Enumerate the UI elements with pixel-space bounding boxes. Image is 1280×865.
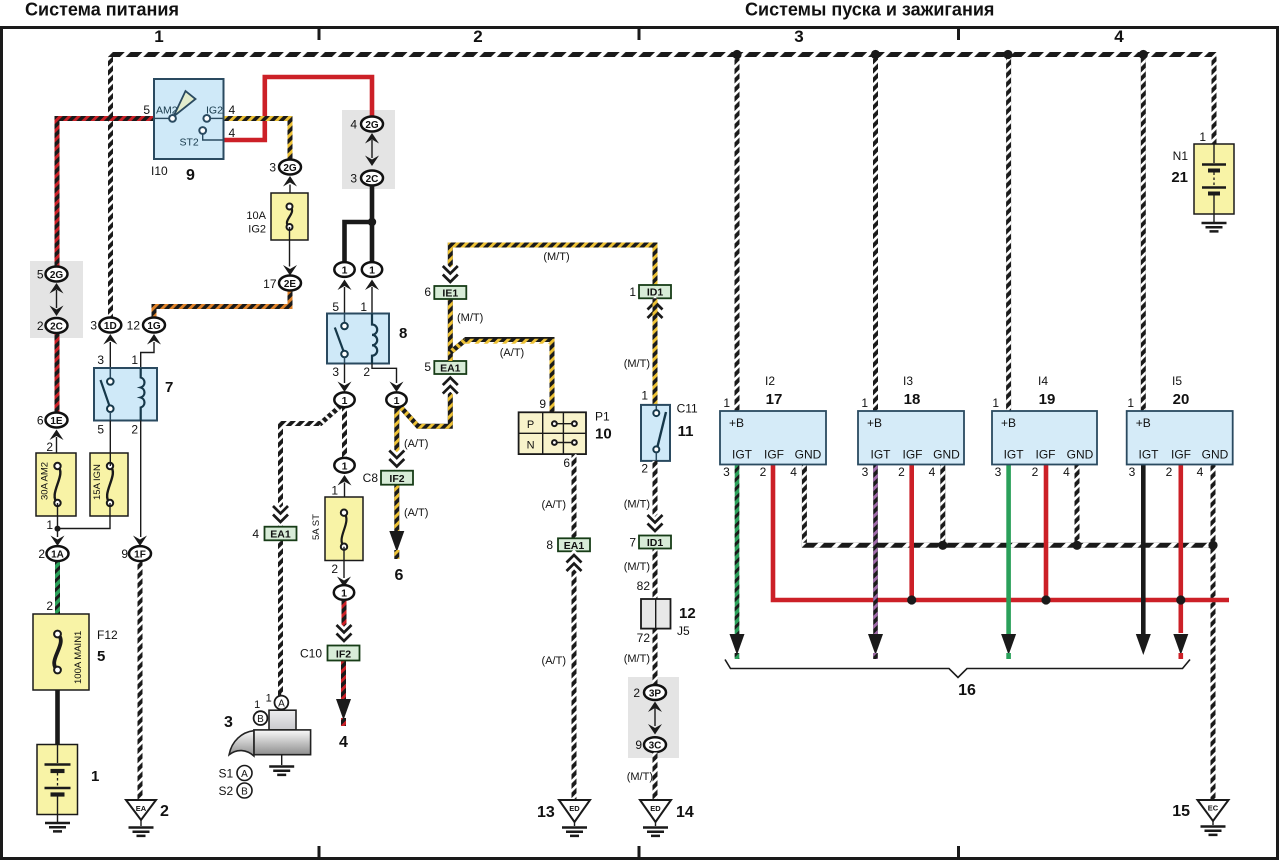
svg-text:6: 6: [563, 456, 570, 470]
connector 1 (relay8 pin1): [362, 262, 382, 277]
svg-text:I3: I3: [903, 374, 913, 388]
svg-text:I5: I5: [1172, 374, 1182, 388]
wire: main +B striped bus from frame top-left to N1: [111, 55, 1215, 318]
svg-text:IGT: IGT: [871, 448, 892, 462]
svg-text:2G: 2G: [283, 163, 297, 174]
wire: orange/black 2E to 1G: [154, 291, 290, 318]
wire yellow/black A/T from relay8 pin2 connector to EA1 5 and P1: [397, 392, 450, 426]
wire: yellow/black IG2 pin4 to connector 2G: [224, 119, 291, 160]
svg-text:EA: EA: [136, 804, 147, 813]
svg-text:ED: ED: [569, 804, 580, 813]
battery ground: [45, 823, 70, 831]
svg-text:1: 1: [723, 396, 730, 410]
brace 16: [725, 660, 1190, 678]
grid tick bottom: [319, 846, 959, 857]
fuse 30A AM2: [36, 453, 76, 516]
wire 1G to relay7 pin1: [141, 342, 154, 368]
svg-text:(M/T): (M/T): [543, 251, 569, 263]
wire pin to fuse IG2: [289, 185, 291, 207]
wire violet/black I3 IGT: [873, 465, 878, 635]
svg-text:3: 3: [995, 465, 1002, 479]
ignition key wedge: [174, 91, 196, 117]
svg-text:2: 2: [898, 465, 905, 479]
svg-text:9: 9: [635, 738, 642, 752]
svg-text:2C: 2C: [366, 174, 379, 185]
svg-text:1: 1: [1127, 396, 1134, 410]
svg-text:P1: P1: [595, 410, 610, 424]
svg-text:GND: GND: [1202, 448, 1229, 462]
svg-text:19: 19: [1039, 391, 1056, 408]
wire 1E to fuse 30A AM2: [56, 437, 58, 466]
svg-text:3: 3: [97, 353, 104, 367]
contact IG2: [210, 117, 224, 119]
svg-text:1: 1: [641, 389, 648, 403]
junction dot GND I3: [938, 541, 947, 550]
svg-text:2: 2: [37, 319, 44, 333]
svg-text:10: 10: [595, 426, 612, 443]
wires connectors to relay8: [345, 287, 373, 314]
wire white/black +B drop I2: [735, 55, 740, 412]
svg-text:P: P: [527, 419, 534, 431]
wire white/black +B drop I5: [1141, 55, 1146, 412]
wire 1D to relay7 pin3: [109, 342, 111, 368]
svg-text:(A/T): (A/T): [500, 347, 524, 359]
svg-text:1F: 1F: [134, 550, 146, 561]
svg-text:(M/T): (M/T): [624, 653, 650, 665]
connector 1 (relay8 pin2 lower): [386, 392, 406, 407]
svg-text:+B: +B: [729, 416, 744, 430]
wire red I3 IGF drop: [909, 465, 914, 601]
svg-text:4: 4: [1197, 465, 1204, 479]
svg-text:(M/T): (M/T): [624, 358, 650, 370]
svg-text:5: 5: [97, 648, 105, 665]
svg-text:2E: 2E: [284, 279, 297, 290]
svg-text:(M/T): (M/T): [624, 499, 650, 511]
fuse 15A IGN: [90, 453, 128, 516]
svg-text:1: 1: [46, 518, 53, 532]
svg-text:I2: I2: [765, 374, 775, 388]
junction dot 2C branch: [368, 218, 376, 226]
svg-text:A: A: [241, 769, 248, 780]
svg-text:7: 7: [165, 379, 173, 396]
contact AM2: [169, 115, 176, 122]
svg-text:1: 1: [342, 395, 348, 407]
svg-text:3: 3: [794, 27, 803, 46]
svg-text:2: 2: [131, 423, 138, 437]
battery block 1: [37, 745, 78, 815]
svg-text:2: 2: [363, 365, 370, 379]
svg-text:6: 6: [424, 285, 431, 299]
svg-text:2: 2: [633, 686, 640, 700]
wire green/black I2 IGT: [735, 465, 740, 635]
svg-text:2: 2: [760, 465, 767, 479]
junction dot IGF I3: [907, 595, 916, 604]
svg-text:1: 1: [369, 265, 375, 277]
svg-text:I10: I10: [151, 164, 168, 178]
junction dot bus I4: [1003, 50, 1012, 59]
wire white/black I4 GND drop: [1075, 465, 1080, 546]
mating arrows 2G-2C: [50, 283, 64, 294]
wire red IGF bus: [773, 465, 1229, 601]
svg-text:2C: 2C: [50, 322, 63, 333]
svg-text:9: 9: [121, 547, 128, 561]
junction dot IGF I4: [1041, 595, 1050, 604]
wire: white/black 1F to ground EA: [138, 561, 143, 800]
svg-text:2: 2: [331, 562, 338, 576]
svg-text:1: 1: [342, 460, 348, 472]
svg-text:3: 3: [332, 365, 339, 379]
svg-text:4: 4: [339, 734, 348, 751]
wire yellow/black M/T riser EA1 to ID1: [450, 245, 655, 361]
ground ED 13: [559, 800, 590, 822]
svg-text:8: 8: [399, 325, 407, 342]
svg-text:S2: S2: [219, 784, 234, 798]
svg-text:9: 9: [186, 167, 195, 184]
svg-text:Система питания: Система питания: [25, 0, 179, 20]
svg-text:IE1: IE1: [442, 288, 458, 300]
svg-text:1: 1: [629, 285, 636, 299]
starter motor 3: [280, 693, 282, 696]
svg-text:IGT: IGT: [732, 448, 753, 462]
svg-text:(M/T): (M/T): [457, 312, 483, 324]
ignition switch I10 block 9: [154, 79, 224, 159]
connector 1 above 5A ST: [334, 458, 354, 473]
svg-text:16: 16: [958, 682, 976, 699]
wire relay8 pin3 to connector: [344, 364, 346, 384]
svg-text:18: 18: [904, 391, 921, 408]
svg-text:IF2: IF2: [336, 649, 351, 661]
svg-text:EC: EC: [1208, 804, 1219, 813]
relay block 8: [327, 314, 389, 364]
svg-text:2G: 2G: [365, 120, 379, 131]
svg-text:17: 17: [766, 391, 783, 408]
svg-text:15: 15: [1172, 803, 1190, 820]
svg-text:IGF: IGF: [903, 448, 923, 462]
svg-text:20: 20: [1173, 391, 1190, 408]
svg-text:1: 1: [360, 300, 367, 314]
wire white/black +B drop I4: [1006, 55, 1011, 412]
wire relay7 pin5 to fuse 15A IGN: [109, 421, 111, 467]
wire: black/red stripe battery feed to ignition switch AM2: [57, 119, 154, 267]
svg-text:100A MAIN1: 100A MAIN1: [73, 631, 84, 684]
wire yellow/black ID1 to C11: [653, 298, 658, 405]
svg-text:3: 3: [224, 714, 233, 731]
svg-text:1: 1: [331, 484, 338, 498]
wire white/black to 5A ST: [342, 403, 347, 458]
arrow I4 IGT: [1001, 634, 1016, 655]
svg-text:1E: 1E: [50, 416, 63, 427]
svg-text:B: B: [241, 787, 248, 798]
svg-text:GND: GND: [1067, 448, 1094, 462]
svg-text:(A/T): (A/T): [404, 507, 428, 519]
wire white/black I3 GND drop: [940, 465, 945, 546]
AM2 pin line: [154, 117, 169, 119]
svg-text:11: 11: [678, 423, 694, 440]
svg-text:ED: ED: [650, 804, 661, 813]
wire white/black +B drop I3: [873, 55, 878, 412]
ground EA 2: [126, 800, 156, 820]
svg-text:5: 5: [332, 300, 339, 314]
svg-text:1: 1: [394, 395, 400, 407]
junction dot GND I5: [1208, 541, 1217, 550]
svg-text:EA1: EA1: [270, 529, 291, 541]
svg-text:+B: +B: [1001, 416, 1016, 430]
mating arrows mid 2G-2C: [365, 133, 379, 144]
grid tick top 1/2: [319, 29, 959, 40]
svg-text:IG2: IG2: [248, 224, 266, 236]
svg-text:1: 1: [154, 27, 163, 46]
svg-text:N1: N1: [1173, 149, 1189, 163]
svg-text:IGT: IGT: [1139, 448, 1160, 462]
connector 1 below 5A ST: [334, 585, 354, 600]
svg-text:(M/T): (M/T): [627, 771, 653, 783]
junction connector 5 EA1 with chevrons: [443, 378, 458, 394]
svg-text:1: 1: [861, 396, 868, 410]
contact ST2: [203, 134, 224, 140]
svg-text:ID1: ID1: [647, 537, 664, 549]
svg-text:4: 4: [1063, 465, 1070, 479]
svg-text:2G: 2G: [50, 270, 64, 281]
svg-text:+B: +B: [867, 416, 882, 430]
svg-text:C11: C11: [677, 402, 698, 416]
svg-text:I4: I4: [1038, 374, 1048, 388]
wire fuse to 2E: [289, 227, 291, 267]
svg-text:(A/T): (A/T): [542, 655, 566, 667]
gray patch mid 2G/2C: [342, 110, 395, 189]
svg-text:2: 2: [46, 440, 53, 454]
svg-text:N: N: [527, 440, 535, 452]
wire white/black I5 GND to ground EC: [1211, 465, 1216, 801]
svg-text:F12: F12: [97, 628, 118, 642]
arrow I2 IGT: [730, 634, 745, 655]
arrow I3 IGT: [868, 634, 883, 655]
svg-text:2: 2: [641, 462, 648, 476]
svg-text:3: 3: [1129, 465, 1136, 479]
ground ED 14: [640, 800, 671, 822]
wire relay7 pin2 to 1F: [140, 421, 142, 538]
svg-text:(A/T): (A/T): [404, 438, 428, 450]
wire: red ST2 pin4 to connector 2G pin4: [224, 77, 373, 140]
svg-text:(M/T): (M/T): [624, 561, 650, 573]
svg-text:IGF: IGF: [1171, 448, 1191, 462]
svg-text:3P: 3P: [649, 689, 662, 700]
svg-text:1: 1: [254, 699, 260, 711]
fuse 10A IG2: [271, 193, 308, 240]
svg-text:3: 3: [90, 319, 97, 333]
wire fuses join to 1A: [58, 503, 111, 537]
svg-text:12: 12: [127, 319, 141, 333]
connector 1 (relay8 pin5): [334, 262, 354, 277]
svg-text:14: 14: [676, 804, 694, 821]
wire yellow/black C8 branch to off-page arrow 6: [394, 403, 399, 531]
svg-text:1: 1: [342, 265, 348, 277]
svg-text:2: 2: [46, 599, 53, 613]
svg-text:4: 4: [929, 465, 936, 479]
svg-text:4: 4: [1114, 27, 1124, 46]
svg-text:15A IGN: 15A IGN: [92, 464, 103, 500]
junction dot bus I3: [871, 50, 880, 59]
svg-text:82: 82: [637, 579, 651, 593]
starter ground: [281, 755, 283, 765]
svg-text:2: 2: [38, 547, 45, 561]
svg-text:4: 4: [229, 103, 236, 117]
svg-text:2: 2: [473, 27, 482, 46]
svg-text:9: 9: [539, 397, 546, 411]
junction dot bus I5: [1139, 50, 1148, 59]
svg-text:(A/T): (A/T): [542, 499, 566, 511]
svg-text:IF2: IF2: [389, 473, 404, 485]
arrow I5 IGT: [1136, 634, 1151, 655]
svg-text:1G: 1G: [147, 321, 161, 332]
svg-text:6: 6: [395, 567, 404, 584]
svg-text:3: 3: [269, 161, 276, 175]
svg-text:2: 2: [1166, 465, 1173, 479]
junction dot IGF I5: [1176, 595, 1185, 604]
junction dot bus I2: [732, 50, 741, 59]
svg-text:IGF: IGF: [1036, 448, 1056, 462]
mating arrows 3P-3C: [648, 702, 662, 713]
svg-text:10A: 10A: [246, 210, 266, 222]
gray patch 3P/3C: [628, 677, 679, 758]
wire yellow/black A/T branch to P1 pin9: [450, 340, 552, 413]
svg-text:3: 3: [350, 172, 357, 186]
wire F12 to battery: [55, 690, 60, 745]
svg-text:1: 1: [1199, 130, 1206, 144]
wire: green/black 1A to F12: [55, 561, 60, 614]
svg-text:6: 6: [37, 414, 44, 428]
wire green I4 IGT: [1006, 465, 1011, 635]
svg-text:1A: 1A: [51, 550, 64, 561]
svg-text:C10: C10: [300, 647, 322, 661]
svg-text:3: 3: [723, 465, 730, 479]
ground EC 15: [1198, 800, 1229, 821]
svg-text:EA1: EA1: [440, 363, 461, 375]
svg-text:A: A: [278, 699, 285, 710]
svg-text:GND: GND: [933, 448, 960, 462]
wire black/red to C10 IF2 and off-page arrow 4: [341, 600, 347, 700]
arrow I5 IGF: [1173, 634, 1188, 655]
wire white/black to EA1 4 and starter: [281, 403, 345, 696]
wire: black/red stripe 2C to 1E: [55, 333, 60, 413]
svg-text:ST2: ST2: [180, 137, 199, 149]
svg-text:1: 1: [992, 396, 999, 410]
svg-text:2: 2: [160, 803, 169, 820]
wire white/black C11 to 3P: [653, 461, 658, 686]
wire red I4 IGF drop: [1044, 465, 1049, 601]
wire red I5 IGF drop to arrow: [1179, 465, 1184, 634]
svg-text:4: 4: [229, 126, 236, 140]
N1 ground: [1202, 223, 1227, 231]
wire white/black 3C to ground ED 14: [653, 753, 658, 801]
svg-text:C8: C8: [363, 471, 379, 485]
svg-text:17: 17: [263, 277, 277, 291]
svg-text:3: 3: [862, 465, 869, 479]
svg-text:IGT: IGT: [1004, 448, 1025, 462]
relay block 7: [94, 368, 157, 421]
svg-text:1: 1: [266, 693, 272, 705]
svg-text:B: B: [257, 714, 264, 725]
svg-text:1: 1: [91, 768, 99, 785]
svg-text:IGF: IGF: [764, 448, 784, 462]
gray patch left 2G/2C: [30, 261, 83, 338]
wire black I5 IGT: [1141, 465, 1146, 635]
svg-text:S1: S1: [219, 767, 234, 781]
svg-text:21: 21: [1171, 169, 1188, 186]
svg-text:8: 8: [546, 538, 553, 552]
svg-text:Системы пуска и зажигания: Системы пуска и зажигания: [745, 0, 994, 20]
off-page arrow 6: [389, 531, 404, 552]
svg-text:5: 5: [97, 423, 104, 437]
svg-text:5: 5: [424, 360, 431, 374]
svg-text:12: 12: [679, 605, 696, 622]
off-page arrow 4: [336, 699, 351, 720]
svg-text:2: 2: [1032, 465, 1039, 479]
fuse 5A ST block 6 path: [325, 497, 363, 561]
svg-text:72: 72: [637, 631, 651, 645]
svg-text:4: 4: [790, 465, 797, 479]
wire thick black 2C to relay 8 connectors: [345, 186, 373, 263]
svg-text:5: 5: [143, 103, 150, 117]
svg-text:1: 1: [131, 353, 138, 367]
wire white/black GND bus I2-I5: [804, 465, 1213, 546]
svg-text:1: 1: [341, 588, 347, 600]
svg-text:3C: 3C: [649, 741, 662, 752]
connector 1 (relay8 pin3 lower): [334, 392, 354, 407]
svg-text:GND: GND: [795, 448, 822, 462]
svg-text:30A AM2: 30A AM2: [40, 462, 51, 500]
svg-text:J5: J5: [677, 624, 690, 638]
svg-text:+B: +B: [1136, 416, 1151, 430]
svg-text:4: 4: [252, 527, 259, 541]
wire relay8 pin2 to connector: [372, 364, 397, 384]
connector 9 1F: [133, 536, 147, 547]
svg-text:4: 4: [350, 118, 357, 132]
svg-text:13: 13: [537, 804, 555, 821]
svg-text:7: 7: [629, 536, 636, 550]
svg-text:1D: 1D: [104, 321, 117, 332]
svg-text:5A ST: 5A ST: [311, 514, 322, 540]
svg-text:5: 5: [37, 268, 44, 282]
junction dot GND I4: [1072, 541, 1081, 550]
